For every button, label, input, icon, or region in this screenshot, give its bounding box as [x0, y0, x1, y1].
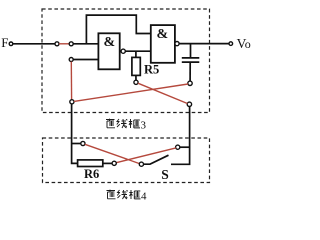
capacitor C (top stub)	[190, 44, 192, 57]
op-amp gate U1 (NAND)	[98, 33, 119, 69]
node RC junction left	[70, 100, 74, 104]
wire gate1 out to gate2 in	[125, 50, 151, 52]
node F terminal	[1, 35, 12, 50]
char 线	[117, 190, 128, 199]
gate U2 output bubble	[175, 42, 179, 46]
wire red vertical (input B to node)	[70, 62, 72, 100]
wire stub to box4 left node	[72, 143, 81, 145]
wire gate 1 input B stub	[73, 59, 98, 61]
wire red cross B (R5 bottom to right node)	[138, 83, 188, 103]
wire R5 bottom stub	[135, 75, 137, 80]
resistor R5	[132, 57, 159, 76]
wire F input	[13, 43, 55, 45]
svg-text:F: F	[1, 35, 8, 50]
node R5 bottom	[134, 80, 138, 84]
svg-text:o: o	[245, 37, 251, 51]
char 框	[129, 119, 140, 128]
svg-text:R5: R5	[144, 62, 159, 76]
node box4 top-left	[81, 141, 85, 145]
label: dashed-box-3 caption	[106, 119, 140, 128]
wire R5 top stub	[135, 51, 137, 57]
wire switch top stub	[180, 146, 190, 148]
node junction on F line (right)	[69, 42, 73, 46]
svg-text:3: 3	[141, 119, 147, 131]
wire red cross C (box4 left node to switch contact)	[85, 144, 140, 163]
wire red cross D (R6 right to switch upper)	[116, 148, 176, 163]
svg-text:R6: R6	[84, 167, 99, 181]
svg-text:S: S	[161, 167, 169, 182]
wire red cross A (left node to cap bottom)	[74, 84, 188, 101]
node junction on F line (left)	[55, 42, 59, 46]
node gate 1 input B	[69, 58, 73, 62]
capacitor C bottom stub	[189, 63, 191, 81]
svg-text:&: &	[104, 35, 116, 50]
char 虚	[107, 190, 116, 199]
dashed box 4	[43, 138, 210, 183]
resistor R6	[78, 160, 103, 181]
char 框	[129, 190, 140, 199]
node switch upper	[176, 145, 180, 149]
wire output to Vo	[179, 43, 229, 45]
gate U1 output bubble	[121, 49, 125, 53]
wire left branch down to R6	[72, 104, 78, 163]
wire red link segment	[59, 43, 69, 45]
switch S arm	[144, 155, 169, 164]
label: dashed-box-4 caption	[107, 190, 141, 199]
capacitor C plates	[182, 58, 200, 62]
svg-text:&: &	[157, 27, 169, 42]
wire to gate 1 input A	[73, 43, 98, 45]
op-amp gate U2 (NAND)	[151, 25, 175, 63]
wire R6 right stub	[103, 162, 112, 164]
char 虚	[106, 119, 115, 128]
node feedback top-right	[187, 102, 191, 106]
node R6 right	[112, 161, 116, 165]
node capacitor bottom	[188, 81, 192, 85]
wire feedback loop top	[86, 15, 150, 44]
node Vo terminal	[229, 36, 251, 51]
switch S contact node	[139, 162, 143, 166]
svg-text:4: 4	[141, 190, 147, 202]
char 线	[117, 119, 128, 128]
wire right branch down to switch	[171, 107, 190, 165]
dashed box 3	[42, 9, 210, 113]
